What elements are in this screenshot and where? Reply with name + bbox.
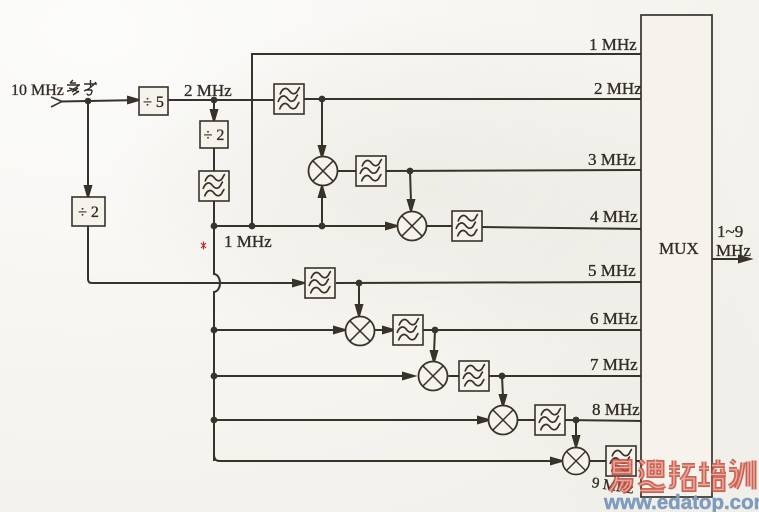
wire: 6MHz tap down into mixer7 top [431,330,437,362]
wire: mixer7 to filter7 [449,375,460,377]
red stray mark [201,242,206,250]
label 6 MHz right [590,309,638,328]
wire: bus to mixer6 left [214,327,345,333]
divider U2 /2 (2MHz to 1MHz) [200,121,228,148]
label 9 MHz tilted [591,475,635,497]
mixer M6 [346,317,375,346]
svg-text:MUX: MUX [659,239,699,258]
svg-text:5 MHz: 5 MHz [588,261,636,280]
filter FV (1MHz chain) [199,171,229,201]
wire: filter4 to MUX 4MHz [482,227,642,229]
label 3 MHz right [588,150,636,169]
wire: 3MHz tap down into mixer4 top [408,171,414,211]
wire: 10 MHz input line [61,100,139,102]
node input junction [85,98,92,105]
svg-text:3 MHz: 3 MHz [588,150,636,169]
wire: 1MHz row to mixer4 [214,223,397,229]
filter F4 (4MHz) [452,211,482,241]
wire: mixer3 to filter3 [338,170,357,172]
filter F2 (2MHz) [274,84,304,114]
node 3MHz tap [407,168,414,175]
label 10 MHz reference [11,80,97,99]
wire: /2 to filter vertical [213,148,215,171]
node bus tap 7 [211,373,218,380]
svg-text:2 MHz: 2 MHz [184,81,232,100]
svg-text:8 MHz: 8 MHz [592,400,640,419]
mixer M9 [563,448,590,475]
wire: filter5 to MUX 5MHz [336,282,642,283]
node bus tap 8 [211,417,218,424]
watermark url [603,491,759,512]
wire: 8MHz tap down into mixer9 top [573,420,579,447]
wire: mixer9 to filter9 [590,460,608,462]
node 1MHz junction [211,223,218,230]
wire: mixer6 to filter6 [374,327,394,333]
svg-text:2 MHz: 2 MHz [594,79,642,98]
wire: filter8 to MUX 8MHz [565,420,642,421]
filter F6 (6MHz) [393,315,423,345]
wire: filter6 to MUX 6MHz [423,329,642,331]
node 8MHz tap [573,417,580,424]
svg-text:6 MHz: 6 MHz [590,309,638,328]
label 4 MHz right [590,207,638,226]
wire: 5MHz tap down into mixer6 top [356,283,362,316]
mixer M3 [309,157,338,186]
wire: 2MHz junction down to /2 [211,100,217,121]
wire: junction down to divider /2 left [85,101,91,197]
svg-text:÷ 2: ÷ 2 [78,204,99,221]
filter F8 (8MHz) [535,405,565,435]
label 8 MHz right [592,400,640,419]
node 2MHz junction [211,97,218,104]
wire: bus bottom across to mixer9 [214,455,562,464]
wire: 2MHz line filter to MUX [304,98,642,100]
wire: MUX output arrow [712,256,750,262]
wire: bus to mixer8 left [214,417,489,423]
wire: mixer4 to filter4 [427,225,453,227]
svg-text:1 MHz: 1 MHz [224,232,272,251]
filter F7 (7MHz) [459,361,489,391]
wire: mixer8 to filter8 [518,419,536,421]
svg-text:÷ 5: ÷ 5 [143,94,164,111]
filter F9 (9MHz) [606,446,636,476]
mixer M4 [398,212,427,241]
svg-text:10 MHz: 10 MHz [11,82,64,99]
node 6MHz tap [432,327,439,334]
label 2 MHz right [594,79,642,98]
mixer M7 [419,362,448,391]
mixer M8 [489,406,518,435]
wire: bus 1MHz down with hop over 5MHz line [214,226,220,461]
label 5 MHz right [588,261,636,280]
divider U3 /2 (10MHz to 5MHz) [72,197,105,226]
svg-text:MHz: MHz [716,241,751,260]
label 2 MHz left [184,81,232,100]
svg-text:4 MHz: 4 MHz [590,207,638,226]
svg-text:1 MHz: 1 MHz [589,35,637,54]
wire: filter9 to MUX 9MHz [636,460,642,462]
node 1MHz riser junction [249,223,256,230]
wire: filter7 to MUX 7MHz [489,375,642,377]
svg-text:www.edatop.com: www.edatop.com [603,491,759,512]
wire: filter3 to MUX 3MHz [386,170,642,171]
wire: /5 output to 2MHz junction and filter [168,99,274,101]
label output 1~9 MHz [716,222,751,260]
wire: left /2 down and across 5MHz feed [88,226,304,286]
wire: 7MHz tap down into mixer8 top [500,376,506,406]
label 1 MHz right [589,35,637,54]
label 7 MHz right [590,355,638,374]
wire: 1MHz up into mixer3 bottom [319,186,326,229]
wire: bus to mixer7 left [214,373,414,379]
svg-text:7 MHz: 7 MHz [590,355,638,374]
arrow into divider /5 [128,97,139,103]
node 2MHz tap to mixer3 [319,96,326,103]
wire: 2MHz tap down into mixer3 top [319,99,325,157]
watermark red chinese [610,460,754,492]
wire: 1MHz riser up and across to MUX [252,54,642,226]
filter F3 (3MHz) [356,156,386,186]
svg-text:1~9: 1~9 [717,222,743,241]
MUX block [641,15,712,497]
node bus tap 6 [211,327,218,334]
node 5MHz tap [356,280,363,287]
wire: vertical filter to 1MHz node [213,201,215,226]
node 7MHz tap [499,373,506,380]
label 1 MHz mid [224,232,272,251]
input chevron [51,97,62,107]
svg-text:÷ 2: ÷ 2 [204,127,225,144]
divider U1 /5 [139,87,168,115]
filter F5 (5MHz) [305,268,335,298]
